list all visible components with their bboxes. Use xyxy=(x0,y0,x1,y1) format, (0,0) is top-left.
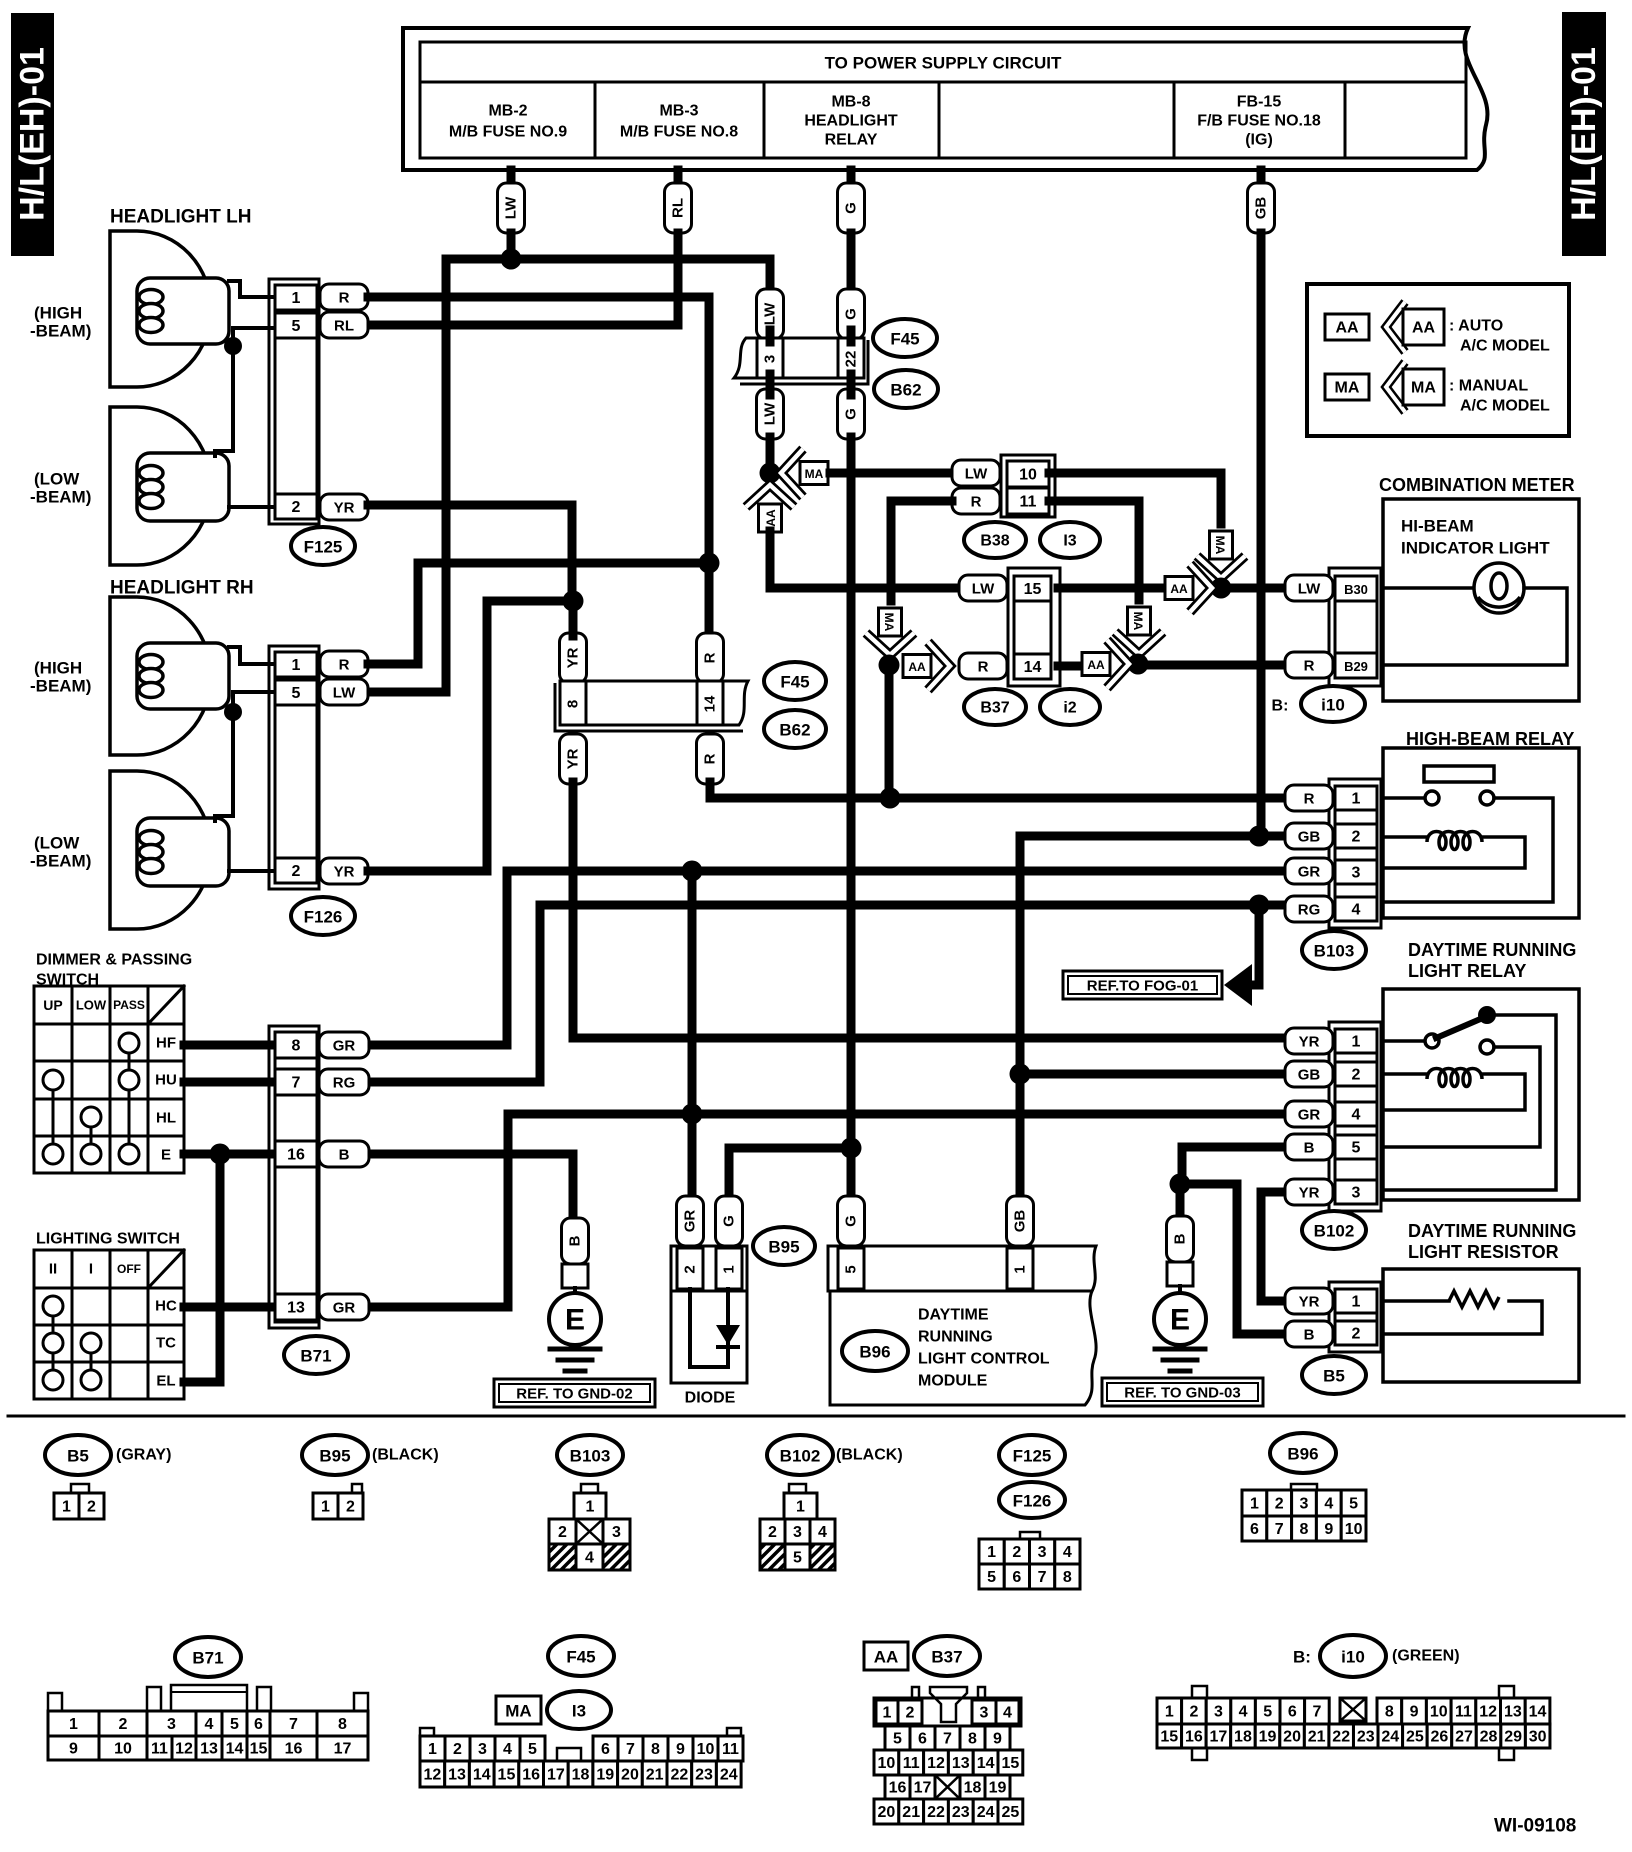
high-beam relay box xyxy=(1383,748,1579,918)
connector label B103 xyxy=(1302,931,1366,969)
svg-text:29: 29 xyxy=(1504,1729,1522,1746)
svg-text:B5: B5 xyxy=(67,1447,89,1466)
svg-text:G: G xyxy=(843,202,860,214)
wire label YR at F126 pin 2 xyxy=(320,858,368,884)
svg-text:5: 5 xyxy=(1352,1140,1361,1157)
svg-text:2: 2 xyxy=(346,1499,355,1516)
ground connector segment GND-03 xyxy=(1167,1262,1193,1286)
svg-text:LW: LW xyxy=(762,402,779,425)
resistor wire out xyxy=(1383,1301,1542,1334)
svg-text:RUNNING: RUNNING xyxy=(918,1329,993,1346)
F125 pin 1 cell xyxy=(275,285,317,310)
svg-text:1: 1 xyxy=(987,1544,996,1561)
connector F45/B62 block pins 8,14 xyxy=(555,681,748,731)
svg-text:1: 1 xyxy=(292,290,301,307)
svg-text:10: 10 xyxy=(1430,1704,1448,1721)
svg-text:REF. TO GND-03: REF. TO GND-03 xyxy=(1124,1385,1240,1402)
svg-text:F126: F126 xyxy=(304,908,343,927)
svg-text:R: R xyxy=(339,657,350,674)
B102 pin 4 cell xyxy=(1335,1102,1377,1126)
wire YR|3 row to resistor YR|1 xyxy=(1261,1192,1285,1301)
wire label G below F45 pin 22 xyxy=(838,389,865,439)
wire GB to DRL relay xyxy=(1020,1070,1285,1079)
connector label B103 (pinout) xyxy=(557,1435,623,1475)
wire RG row to high-beam relay xyxy=(369,905,1285,1082)
svg-text:9: 9 xyxy=(993,1731,1002,1748)
svg-text:30: 30 xyxy=(1529,1729,1547,1746)
svg-text:7: 7 xyxy=(289,1716,298,1733)
svg-text:YR: YR xyxy=(334,864,355,881)
legend MA tag xyxy=(1325,374,1369,400)
svg-text:8: 8 xyxy=(338,1716,347,1733)
svg-text:F/B FUSE NO.18: F/B FUSE NO.18 xyxy=(1197,113,1321,130)
svg-text:3: 3 xyxy=(793,1524,802,1541)
wire label LW at B30 xyxy=(1285,575,1333,601)
svg-text:B38: B38 xyxy=(980,533,1009,550)
svg-text:E: E xyxy=(161,1147,171,1164)
lighting contact circle xyxy=(81,1333,101,1353)
svg-text:2: 2 xyxy=(292,863,301,880)
node GB junction at high-beam relay xyxy=(1249,826,1270,847)
svg-text:AA: AA xyxy=(908,660,926,674)
svg-text:6: 6 xyxy=(254,1716,263,1733)
svg-text:8: 8 xyxy=(968,1731,977,1748)
wire GR row to high-beam relay xyxy=(369,871,1285,1045)
svg-text:M/B FUSE NO.8: M/B FUSE NO.8 xyxy=(620,124,738,141)
connector label B96 (pinout) xyxy=(1270,1433,1336,1473)
i10 pinout table xyxy=(1157,1698,1550,1748)
power supply cell separator xyxy=(594,82,597,158)
svg-text:I3: I3 xyxy=(572,1702,586,1721)
lighting contact circle xyxy=(43,1296,63,1316)
wire label YR at F125 pin 2 xyxy=(320,494,368,520)
svg-text:23: 23 xyxy=(695,1767,713,1784)
resistor wire in xyxy=(1383,1299,1449,1303)
pin 14 cell of F45 xyxy=(697,681,723,725)
wire from i2 pin 15 to AA arrow xyxy=(1058,584,1161,593)
label HI-BEAM INDICATOR LIGHT xyxy=(1401,517,1550,558)
svg-text:B:: B: xyxy=(1293,1648,1311,1667)
svg-text:4: 4 xyxy=(1063,1544,1072,1561)
dimmer contact circle xyxy=(81,1107,101,1127)
F126 channel xyxy=(275,705,317,858)
svg-text:3: 3 xyxy=(980,1705,989,1722)
i2 channel xyxy=(1014,601,1051,654)
wire label LW at i2 pin 15 xyxy=(959,575,1007,601)
svg-text:B103: B103 xyxy=(570,1447,611,1466)
fuse MB-2 label xyxy=(449,103,567,141)
svg-text:1: 1 xyxy=(62,1499,71,1516)
wire label R at B29 xyxy=(1285,652,1333,678)
connector B102 shell xyxy=(1329,1022,1381,1211)
wire R junction down to F45 pin 14 xyxy=(705,563,714,636)
svg-text:B29: B29 xyxy=(1344,659,1368,674)
svg-text:9: 9 xyxy=(676,1741,685,1758)
legend box xyxy=(1307,284,1569,436)
resistor element xyxy=(1449,1291,1499,1307)
wire label B above ground GND-03 xyxy=(1167,1216,1194,1262)
svg-text:2: 2 xyxy=(1012,1544,1021,1561)
lighting switch grid xyxy=(34,1250,184,1399)
svg-text:B95: B95 xyxy=(319,1447,350,1466)
svg-text:10: 10 xyxy=(697,1741,715,1758)
label DAYTIME RUNNING LIGHT CONTROL MODULE xyxy=(918,1307,1050,1390)
svg-text:14: 14 xyxy=(702,695,719,712)
svg-text:PASS: PASS xyxy=(113,998,145,1012)
connector i3 shell xyxy=(1001,455,1055,517)
connector label B95 xyxy=(753,1227,815,1265)
svg-text:LW: LW xyxy=(965,466,988,483)
combination meter box xyxy=(1383,499,1579,701)
pin 3 cell of F45 xyxy=(757,338,783,378)
svg-text:28: 28 xyxy=(1480,1729,1498,1746)
svg-text:B103: B103 xyxy=(1314,942,1355,961)
svg-text:11: 11 xyxy=(1020,494,1037,511)
ground GND-03 xyxy=(1154,1293,1206,1371)
svg-text:GB: GB xyxy=(1298,829,1321,846)
svg-text:2: 2 xyxy=(1275,1496,1284,1513)
svg-text:12: 12 xyxy=(175,1741,193,1758)
legend text MANUAL xyxy=(1449,378,1550,415)
wire to ground GND-02 xyxy=(573,1288,577,1294)
B71 pin 8 cell xyxy=(275,1032,317,1058)
wire AA branch down to i2 pin 15 xyxy=(770,531,959,588)
svg-text:YR: YR xyxy=(565,647,582,668)
pin 10 cell of i3 xyxy=(1007,461,1049,487)
DRL relay open contact to B|5 xyxy=(1383,1047,1540,1147)
wire label B at B71 pin 16 xyxy=(319,1141,369,1167)
svg-text:4: 4 xyxy=(205,1716,214,1733)
svg-text:B71: B71 xyxy=(300,1347,331,1366)
svg-text:19: 19 xyxy=(989,1780,1007,1797)
svg-text:HL: HL xyxy=(156,1110,176,1127)
F45 pinout notches xyxy=(420,1728,741,1736)
svg-text:8: 8 xyxy=(565,700,582,708)
wire LW stub gaps at F45 block xyxy=(766,330,775,342)
wire G from F45 pin 22 down the page xyxy=(847,437,856,1148)
svg-text:E: E xyxy=(565,1304,585,1337)
svg-text:B5: B5 xyxy=(1323,1367,1345,1386)
svg-text:3: 3 xyxy=(612,1524,621,1541)
svg-text:A/C MODEL: A/C MODEL xyxy=(1460,398,1550,415)
svg-text:5: 5 xyxy=(843,1265,860,1273)
connector label F126 xyxy=(291,897,355,935)
svg-text:: AUTO: : AUTO xyxy=(1449,318,1503,335)
svg-text:GR: GR xyxy=(333,1038,356,1055)
arrow MA to i3 pin 10 xyxy=(781,449,828,497)
svg-text:i10: i10 xyxy=(1321,696,1345,715)
meter internal wire B30 xyxy=(1383,586,1474,590)
headlight LH high-beam bulb xyxy=(110,231,229,387)
svg-text:7: 7 xyxy=(1312,1704,1321,1721)
wire label R at i2 pin 14 xyxy=(959,653,1007,679)
svg-text:5: 5 xyxy=(1263,1704,1272,1721)
wire label RG at B71 pin 7 xyxy=(319,1069,369,1095)
svg-text:F45: F45 xyxy=(890,330,919,349)
label (HIGH -BEAM) RH xyxy=(30,659,91,696)
wire RH low bulb to pin 2 xyxy=(229,869,277,873)
wire label G (MB-8) xyxy=(838,183,865,233)
DRL relay contact left xyxy=(1425,1034,1439,1048)
svg-text:EL: EL xyxy=(156,1373,175,1390)
DRL relay contact wire YR|1 xyxy=(1383,1039,1425,1043)
svg-text:R: R xyxy=(702,652,719,663)
wire label LW at F126 pin 5 xyxy=(320,679,368,705)
svg-text:DAYTIME RUNNING: DAYTIME RUNNING xyxy=(1408,940,1576,960)
wire LH junction to pin 5 xyxy=(233,328,277,346)
lighting contact circle xyxy=(43,1333,63,1353)
B102 pin 1 cell xyxy=(1335,1029,1377,1053)
svg-text:1: 1 xyxy=(796,1499,805,1516)
wire G stub gaps at F45 block xyxy=(847,330,856,342)
svg-text:B62: B62 xyxy=(890,381,921,400)
wire label G above module pin 5 xyxy=(838,1196,865,1246)
wire label G above F45 pin 22 xyxy=(838,289,865,339)
svg-text:AA: AA xyxy=(1087,658,1105,672)
svg-text:G: G xyxy=(721,1215,738,1227)
wire junction down to R row xyxy=(885,665,894,798)
B71 channel xyxy=(275,1032,317,1322)
svg-text:M/B FUSE NO.9: M/B FUSE NO.9 xyxy=(449,124,567,141)
svg-text:7: 7 xyxy=(292,1075,301,1092)
svg-text:MA: MA xyxy=(1131,612,1145,631)
wire label LW below F45 pin 3 xyxy=(757,389,784,439)
svg-text:4: 4 xyxy=(1239,1704,1248,1721)
svg-text:13: 13 xyxy=(448,1767,466,1784)
F125 pin 2 cell xyxy=(275,494,317,519)
svg-text:15: 15 xyxy=(250,1741,268,1758)
module connector row xyxy=(828,1246,1096,1291)
headlight RH high-beam bulb xyxy=(110,597,229,755)
svg-text:-BEAM): -BEAM) xyxy=(30,677,91,696)
B5 pin 1 cell xyxy=(1335,1289,1377,1313)
svg-text:13: 13 xyxy=(952,1755,970,1772)
svg-text:16: 16 xyxy=(285,1741,303,1758)
connector B30/B29 shell xyxy=(1329,568,1381,686)
wire E junction down to lighting EL xyxy=(184,1154,220,1382)
connector label B71 (pinout) xyxy=(175,1637,241,1677)
svg-text:5: 5 xyxy=(1349,1496,1358,1513)
F126 pin 1 cell xyxy=(275,652,317,677)
connector label F125 xyxy=(291,527,355,565)
svg-text:17: 17 xyxy=(334,1741,352,1758)
wire label YR at B5 pin 1 xyxy=(1285,1288,1333,1314)
svg-text:16: 16 xyxy=(522,1767,540,1784)
connector label B62 (lower) xyxy=(764,710,826,748)
wire label GR at B71 pin 8 xyxy=(319,1032,369,1058)
pin B30 cell xyxy=(1335,576,1377,601)
connector label i10 (meter) xyxy=(1301,686,1365,722)
wire label B at B102 pin 5 xyxy=(1285,1134,1333,1160)
svg-text:MB-3: MB-3 xyxy=(659,103,698,120)
node R row junction xyxy=(880,788,901,809)
svg-text:YR: YR xyxy=(1299,1034,1320,1051)
svg-text:UP: UP xyxy=(43,997,62,1013)
relay MB-8 label xyxy=(804,94,898,149)
wire GB drop to junction xyxy=(1257,233,1266,836)
svg-text:12: 12 xyxy=(423,1767,441,1784)
svg-text:11: 11 xyxy=(1455,1704,1472,1721)
svg-text:DAYTIME: DAYTIME xyxy=(918,1307,989,1324)
svg-text:MA: MA xyxy=(1213,536,1227,555)
svg-text:3: 3 xyxy=(1038,1544,1047,1561)
legend text AUTO xyxy=(1449,318,1550,355)
svg-text:14: 14 xyxy=(473,1767,491,1784)
wire label YR at B102 pin 3 xyxy=(1285,1179,1333,1205)
wire LW drop to junction xyxy=(507,233,516,262)
ref box REF.TO FOG-01 xyxy=(1063,971,1222,999)
svg-text:LW: LW xyxy=(333,685,356,702)
DRL relay box xyxy=(1383,989,1579,1200)
wire LH high bulb to pin 1 xyxy=(229,281,277,297)
F45 pinout table xyxy=(420,1736,743,1787)
connector label i10 (pinout) xyxy=(1320,1635,1386,1677)
wire label GR at B102 pin 4 xyxy=(1285,1101,1333,1127)
wire GB stub from FB-15 xyxy=(1257,170,1266,186)
connector label F45 (upper) xyxy=(873,319,937,357)
B102 pin 5 cell xyxy=(1335,1135,1377,1159)
B103 pin 1 cell xyxy=(1335,786,1377,810)
connector label F126 (pinout) xyxy=(999,1482,1065,1518)
svg-text:LW: LW xyxy=(1298,581,1321,598)
pin 15 cell of i2 xyxy=(1014,576,1051,601)
svg-text:B102: B102 xyxy=(1314,1222,1355,1241)
dimmer contact circle xyxy=(119,1070,139,1090)
svg-text:GB: GB xyxy=(1253,197,1270,220)
svg-text:15: 15 xyxy=(498,1767,516,1784)
svg-text:i10: i10 xyxy=(1341,1648,1365,1667)
i10 pinout tabs xyxy=(1192,1686,1514,1760)
node R net junction xyxy=(699,553,720,574)
lighting contact line II col xyxy=(52,1306,55,1380)
svg-text:24: 24 xyxy=(1381,1729,1399,1746)
label DIMMER & PASSING SWITCH xyxy=(36,952,192,989)
wire G drop to F45 pin 22 xyxy=(847,233,856,292)
wire label RL at F125 pin 5 xyxy=(320,312,368,338)
label (LOW -BEAM) LH xyxy=(30,470,91,507)
svg-text:5: 5 xyxy=(893,1731,902,1748)
DRL relay switch pivot xyxy=(1478,1006,1496,1024)
headlight LH low-beam bulb xyxy=(110,407,229,565)
hi-beam indicator lamp xyxy=(1474,563,1524,613)
svg-text:B96: B96 xyxy=(1287,1445,1318,1464)
svg-text:B96: B96 xyxy=(859,1343,890,1362)
wire G stub from MB-8 xyxy=(847,170,856,186)
svg-text:1: 1 xyxy=(292,657,301,674)
B71 pinout table xyxy=(48,1711,368,1760)
svg-text:B: B xyxy=(1304,1327,1315,1344)
svg-text:MA: MA xyxy=(882,613,896,632)
svg-text:RL: RL xyxy=(334,318,354,335)
B102 pinout xyxy=(760,1493,835,1570)
svg-text:MA: MA xyxy=(1335,380,1360,397)
dimmer contact line PASS col xyxy=(128,1043,131,1154)
svg-text:13: 13 xyxy=(1504,1704,1522,1721)
B96 pinout tab xyxy=(1291,1484,1317,1492)
DRL relay coil xyxy=(1427,1069,1482,1087)
wire YR from F45 pin 8 down to DRL relay xyxy=(573,782,1285,1038)
node R-net/i2 junction xyxy=(879,655,900,676)
module pin 1 cell xyxy=(1007,1248,1033,1289)
svg-text:GB: GB xyxy=(1012,1210,1029,1233)
svg-text:1: 1 xyxy=(1352,1034,1361,1051)
arrow AA from below junction xyxy=(746,485,794,532)
svg-text:B71: B71 xyxy=(192,1649,223,1668)
arrow AA into B30 node xyxy=(1165,564,1212,612)
B71 pinout tabs xyxy=(48,1685,368,1711)
connector i2 shell xyxy=(1008,568,1060,686)
module box xyxy=(830,1291,1096,1405)
svg-text:8: 8 xyxy=(1300,1521,1309,1538)
svg-text:26: 26 xyxy=(1431,1729,1449,1746)
svg-text:1: 1 xyxy=(586,1499,595,1516)
dimmer contact circle xyxy=(43,1070,63,1090)
node LW junction at MB-2 drop xyxy=(501,249,522,270)
B103 pinout xyxy=(549,1493,630,1570)
B71 pin 16 cell xyxy=(275,1141,317,1167)
pin 8 cell of F45 xyxy=(560,681,586,725)
svg-text:7: 7 xyxy=(1038,1569,1047,1586)
svg-text:2: 2 xyxy=(682,1265,699,1273)
pin B29 cell xyxy=(1335,653,1377,678)
svg-text:-BEAM): -BEAM) xyxy=(30,488,91,507)
svg-text:TO POWER SUPPLY CIRCUIT: TO POWER SUPPLY CIRCUIT xyxy=(825,54,1062,73)
F125 pin 5 cell xyxy=(275,313,317,338)
wire label YR at B102 pin 1 xyxy=(1285,1028,1333,1054)
svg-text:5: 5 xyxy=(987,1569,996,1586)
svg-text:HF: HF xyxy=(156,1035,176,1052)
B96 pinout xyxy=(1242,1490,1366,1541)
wire label B at B5 pin 2 xyxy=(1285,1321,1333,1347)
svg-text:25: 25 xyxy=(1002,1804,1020,1821)
svg-text:4: 4 xyxy=(1352,902,1361,919)
svg-text:4: 4 xyxy=(503,1741,512,1758)
wire B junction to resistor B|2 xyxy=(1180,1184,1285,1334)
svg-text:REF.TO FOG-01: REF.TO FOG-01 xyxy=(1087,978,1198,995)
wire label R at i3 pin 11 xyxy=(952,488,1000,514)
node YR net junction xyxy=(563,591,584,612)
svg-text:INDICATOR LIGHT: INDICATOR LIGHT xyxy=(1401,539,1550,558)
relay contact wire R|1 xyxy=(1383,796,1424,800)
svg-text:1: 1 xyxy=(883,1705,892,1722)
svg-text:22: 22 xyxy=(1332,1729,1350,1746)
connector label B5 (pinout) xyxy=(45,1435,111,1475)
svg-text:5: 5 xyxy=(528,1741,537,1758)
svg-text:6: 6 xyxy=(1288,1704,1297,1721)
svg-text:A/C MODEL: A/C MODEL xyxy=(1460,338,1550,355)
svg-text:-BEAM): -BEAM) xyxy=(30,322,91,341)
svg-text:OFF: OFF xyxy=(117,1262,141,1276)
svg-text:G: G xyxy=(843,1215,860,1227)
B103 pin 4 cell xyxy=(1335,897,1377,921)
power supply title box xyxy=(420,42,1466,82)
wire B junction down to ground xyxy=(1176,1184,1185,1218)
svg-text:4: 4 xyxy=(585,1550,594,1567)
svg-text:2: 2 xyxy=(119,1716,128,1733)
svg-text:LIGHT RESISTOR: LIGHT RESISTOR xyxy=(1408,1242,1559,1262)
svg-text:3: 3 xyxy=(1352,865,1361,882)
connector B71 shell xyxy=(269,1026,319,1328)
fuse FB-15 label xyxy=(1197,94,1321,149)
svg-text:B62: B62 xyxy=(779,721,810,740)
svg-text:2: 2 xyxy=(1352,1067,1361,1084)
wire LW stub from MB-2 xyxy=(507,170,516,186)
svg-text:: MANUAL: : MANUAL xyxy=(1449,378,1528,395)
svg-text:6: 6 xyxy=(918,1731,927,1748)
dimmer contact circle xyxy=(43,1144,63,1164)
power supply cells row xyxy=(420,82,1466,158)
diode pin 1 cell xyxy=(716,1248,742,1289)
